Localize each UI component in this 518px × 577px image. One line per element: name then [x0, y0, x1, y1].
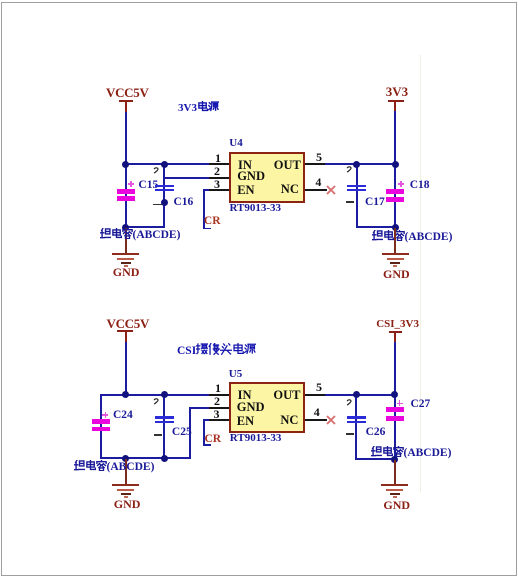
wire left main vertical C15 [125, 163, 127, 228]
wire 3V3 vertical [394, 111, 396, 165]
wire main CSI_3V3 down [394, 394, 396, 461]
pin 4 stub U4 with no-connect [305, 189, 327, 191]
label tantalum caps (top left) [100, 228, 181, 242]
pin 2 stub U5 [209, 407, 229, 409]
wire bottom rail right (bottom section) [355, 458, 395, 460]
capacitor C24 polarized [92, 419, 110, 424]
wire branch C16 vertical [163, 163, 165, 228]
wire EN down to CR [203, 189, 205, 229]
node junction C26 top [353, 391, 360, 398]
pin 4 stub U5 with no-connect [305, 419, 328, 421]
node junction bottom right [392, 224, 399, 231]
pin 1 stub U4 [209, 163, 229, 165]
power port CSI_3V3 [376, 319, 419, 330]
node junction branch top [161, 161, 168, 168]
wire CSI_3V3 vertical [394, 342, 396, 396]
title 3V3 power [178, 101, 219, 114]
node junction C25 bottom [161, 455, 168, 462]
ground GND (bottom right) [394, 460, 396, 484]
pin 5 stub U4 [305, 163, 325, 165]
power port VCC5V (top) [106, 86, 149, 99]
ground GND (top right) [394, 228, 396, 253]
capacitor C18 polarized [386, 189, 404, 194]
node junction C17 top [353, 161, 360, 168]
pin 3 stub U4 [209, 189, 229, 191]
pin number 4 (U5) [314, 406, 320, 418]
node junction VCC/IN [122, 161, 129, 168]
pin 1 stub U5 [209, 394, 229, 396]
pin number 3 (U5) [214, 408, 220, 420]
wire branch C24 vertical [100, 394, 102, 460]
wire main 3V3 down [394, 163, 396, 229]
node junction C25 top [161, 391, 168, 398]
pin number 2 [214, 165, 220, 177]
wire bottom rail right [356, 226, 396, 228]
node junction CSI_3V3/OUT [391, 391, 398, 398]
node junction 3V3/OUT [392, 161, 399, 168]
pin 3 stub U5 [209, 419, 229, 421]
IC U5 RT9013-33 [229, 382, 305, 433]
capacitor C25 [155, 416, 174, 418]
wire IN net horizontal [125, 163, 210, 165]
capacitor C27 polarized [386, 407, 404, 412]
wire bottom rail left [125, 226, 166, 228]
ground GND (bottom left) [125, 459, 127, 485]
pin number 5 [316, 151, 322, 163]
power port 3V3 [386, 85, 408, 98]
ground GND (top left) [125, 228, 127, 253]
pin 2 stub U4 [209, 177, 229, 179]
no connect X (bottom) [325, 414, 337, 426]
no connect X (top) [325, 184, 337, 196]
wire VCC5V vertical (bottom) [125, 342, 127, 396]
power port VCC5V (bottom) [107, 317, 150, 330]
net label CR (bottom) [205, 434, 222, 446]
node junction C16 mid [161, 199, 168, 206]
capacitor C26 [347, 416, 366, 418]
pin number 2 (U5) [214, 395, 220, 407]
pin number 4 [315, 176, 321, 188]
wire OUT net [325, 163, 396, 165]
IC U4 RT9013-33 [229, 152, 305, 203]
wire EN down to CR (bottom) [203, 419, 205, 446]
wire top rail (bottom section) [100, 394, 210, 396]
wire VCC5V vertical (top) [125, 112, 127, 165]
pin number 3 [214, 178, 220, 190]
wire OUT net (bottom) [325, 394, 396, 396]
wire branch C26 vertical [355, 394, 357, 460]
capacitor C15 polarized [117, 189, 135, 194]
wire branch C17 vertical [356, 163, 358, 228]
pin 5 stub U5 [305, 394, 326, 396]
wire GND pin2 horizontal (bottom) [189, 407, 210, 409]
label tantalum caps (bottom left) [74, 460, 155, 474]
pin number 1 (U5) [215, 382, 221, 394]
node junction VCC (bottom) [122, 391, 129, 398]
label tantalum caps (bottom right) [371, 446, 452, 460]
label tantalum caps (top right) [372, 230, 453, 244]
wire GND pin2 horizontal [163, 177, 209, 179]
capacitor C16 [155, 185, 174, 187]
net label CR (top) [204, 216, 221, 228]
wire pin2 down [189, 407, 191, 460]
capacitor C17 [347, 185, 366, 187]
pin number 1 [215, 152, 221, 164]
pin number 5 (U5) [316, 381, 322, 393]
wire EN pin3 horizontal (bottom) [203, 419, 210, 421]
wire EN pin3 horizontal [203, 189, 210, 191]
wire branch C25 vertical [163, 394, 165, 460]
node junction bottom right (bottom section) [391, 456, 398, 463]
node junction bottom left [122, 224, 129, 231]
wire bottom rail (bottom section) [100, 457, 191, 459]
title CSI camera power [177, 343, 256, 358]
node junction GND stem (bottom left) [122, 455, 129, 462]
